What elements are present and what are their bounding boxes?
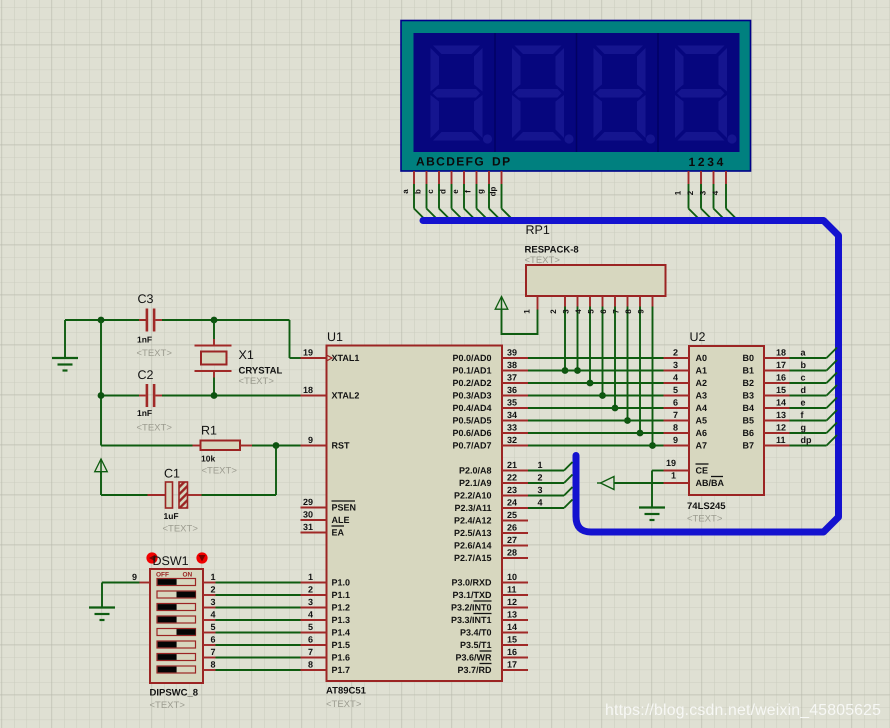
- wire P2.3 to address bus: [528, 498, 573, 509]
- U2 pin 14 B4: [742, 398, 789, 414]
- U1 pin 17 P3.7/RD: [457, 660, 528, 676]
- svg-text:19: 19: [303, 348, 313, 358]
- svg-text:b: b: [801, 360, 807, 370]
- svg-text:4: 4: [673, 373, 678, 383]
- svg-text:<TEXT>: <TEXT>: [239, 376, 275, 387]
- svg-text:P0.1/AD1: P0.1/AD1: [452, 366, 491, 376]
- svg-text:26: 26: [507, 523, 517, 533]
- svg-text:P0.7/AD7: P0.7/AD7: [452, 441, 491, 451]
- U2 pin 1 AB/BA: [664, 471, 725, 489]
- svg-text:3: 3: [699, 190, 708, 195]
- svg-text:B3: B3: [742, 391, 754, 401]
- junction RP1 pin 7 to P0 bus row: [624, 417, 631, 424]
- svg-text:P3.5/T1: P3.5/T1: [460, 640, 492, 650]
- svg-text:B2: B2: [742, 378, 754, 388]
- svg-text:39: 39: [507, 348, 517, 358]
- svg-text:4: 4: [308, 610, 313, 620]
- svg-text:P3.2/INT0: P3.2/INT0: [451, 603, 492, 613]
- svg-text:16: 16: [776, 373, 786, 383]
- svg-text:A4: A4: [696, 403, 708, 413]
- U2 pin 3 A1: [664, 360, 708, 376]
- power symbol VCC (reset): [95, 459, 108, 474]
- capacitor C2: [139, 384, 162, 407]
- svg-text:A0: A0: [696, 353, 708, 363]
- svg-text:P0.6/AD6: P0.6/AD6: [452, 428, 491, 438]
- svg-text:9: 9: [673, 435, 678, 445]
- U1 pin 31 EA: [301, 522, 345, 538]
- display pin d: [439, 171, 463, 220]
- wire VCC to C1: [101, 472, 148, 495]
- svg-text:<TEXT>: <TEXT>: [150, 700, 186, 711]
- wire P0.5 to U2 A5: [528, 420, 664, 422]
- wire P2.1 to address bus: [528, 473, 573, 484]
- svg-text:15: 15: [507, 635, 517, 645]
- svg-text:U1: U1: [327, 330, 343, 344]
- wire B1 to data bus / node b: [790, 360, 838, 371]
- svg-text:OFF: OFF: [156, 572, 169, 579]
- svg-text:2: 2: [308, 585, 313, 595]
- svg-text:g: g: [476, 189, 485, 194]
- DSW1 pin 3 / wire to P1.2: [203, 597, 301, 608]
- svg-text:<TEXT>: <TEXT>: [163, 524, 199, 535]
- wire B5 to data bus / node f: [790, 410, 838, 421]
- U2 pin 12 B6: [742, 423, 789, 439]
- svg-text:10k: 10k: [201, 454, 215, 464]
- U2 pin 7 A5: [664, 410, 708, 426]
- svg-text:P3.4/T0: P3.4/T0: [460, 628, 492, 638]
- svg-text:24: 24: [507, 498, 517, 508]
- svg-text:28: 28: [507, 548, 517, 558]
- U1 pin 21 P2.0/A8: [459, 460, 528, 476]
- svg-text:P2.1/A9: P2.1/A9: [459, 478, 492, 488]
- svg-text:B6: B6: [742, 428, 754, 438]
- U2 pin 16 B2: [742, 373, 789, 389]
- svg-text:3: 3: [308, 597, 313, 607]
- U1 pin 24 P2.3/A11: [454, 498, 528, 514]
- svg-text:3: 3: [211, 597, 216, 607]
- svg-text:11: 11: [776, 435, 786, 445]
- svg-text:P0.3/AD3: P0.3/AD3: [452, 391, 491, 401]
- wire C2 to XTAL2: [101, 395, 301, 397]
- crystal X1: [195, 320, 232, 396]
- wire B6 to data bus / node g: [790, 423, 838, 434]
- wire R1 to RST: [252, 445, 301, 447]
- U1 pin 32 P0.7/AD7: [452, 435, 528, 451]
- RP1 pin 8: [624, 296, 640, 433]
- svg-text:10: 10: [507, 572, 517, 582]
- display pin g: [476, 171, 500, 220]
- wire B4 to data bus / node e: [790, 398, 838, 409]
- svg-text:P2.7/A15: P2.7/A15: [454, 553, 492, 563]
- svg-text:5: 5: [673, 385, 678, 395]
- svg-text:P2.2/A10: P2.2/A10: [454, 491, 492, 501]
- svg-text:7: 7: [673, 410, 678, 420]
- U1 pin 3 P1.2: [301, 597, 351, 613]
- svg-text:P2.4/A12: P2.4/A12: [454, 516, 492, 526]
- svg-text:B7: B7: [742, 441, 754, 451]
- svg-text:d: d: [801, 385, 807, 395]
- svg-text:8: 8: [624, 309, 633, 314]
- svg-text:e: e: [801, 398, 806, 408]
- display pin b: [414, 171, 438, 220]
- svg-text:2: 2: [549, 309, 558, 314]
- svg-text:4: 4: [211, 610, 216, 620]
- U1 pin 15 P3.5/T1: [460, 635, 528, 651]
- svg-text:P3.1/TXD: P3.1/TXD: [452, 590, 492, 600]
- wire P0.4 to U2 A4: [528, 407, 664, 409]
- svg-text:B0: B0: [742, 353, 754, 363]
- U2 pin 15 B3: [742, 385, 789, 401]
- DSW1 pin 2 / wire to P1.1: [203, 585, 301, 596]
- DSW1 switch element 1: [157, 579, 196, 586]
- svg-text:dp: dp: [489, 187, 498, 197]
- svg-text:AB/BA: AB/BA: [696, 478, 725, 488]
- svg-text:d: d: [439, 189, 448, 194]
- svg-text:29: 29: [303, 497, 313, 507]
- U1 pin 4 P1.3: [301, 610, 351, 626]
- junction RP1 pin 3 to P0 bus row: [574, 367, 581, 374]
- wire P2.0 to address bus: [528, 460, 573, 471]
- DSW1 pin 7 / wire to P1.6: [203, 647, 301, 658]
- svg-text:7: 7: [211, 647, 216, 657]
- svg-text:X1: X1: [239, 348, 254, 362]
- junction RP1 pin 4 to P0 bus row: [587, 380, 594, 387]
- svg-text:9: 9: [637, 309, 646, 314]
- wire DSW1 common to ground: [102, 583, 140, 608]
- svg-text:8: 8: [308, 660, 313, 670]
- svg-text:27: 27: [507, 535, 517, 545]
- U1 pin 12 P3.2/INT0: [451, 597, 528, 613]
- svg-text:A1: A1: [696, 366, 708, 376]
- svg-text:ON: ON: [183, 572, 193, 579]
- RP1 pin 2: [549, 296, 565, 371]
- junction RP1 pin 2 to P0 bus row: [562, 367, 569, 374]
- svg-text:C3: C3: [138, 292, 154, 306]
- svg-text:PSEN: PSEN: [332, 503, 357, 513]
- display pin 3: [699, 171, 725, 220]
- display pin e: [451, 171, 475, 220]
- svg-text:33: 33: [507, 423, 517, 433]
- svg-text:21: 21: [507, 460, 517, 470]
- svg-text:XTAL2: XTAL2: [332, 391, 360, 401]
- microcontroller U1 body: [327, 346, 503, 682]
- svg-text:<TEXT>: <TEXT>: [326, 699, 362, 710]
- display pin dp: [489, 171, 513, 220]
- svg-text:2: 2: [211, 585, 216, 595]
- U2 pin 9 A7: [664, 435, 708, 451]
- RP1 pin 4: [574, 296, 590, 383]
- svg-text:23: 23: [507, 485, 517, 495]
- svg-text:b: b: [414, 189, 423, 194]
- RP1 pin 5: [587, 296, 603, 396]
- svg-text:8: 8: [211, 660, 216, 670]
- U1 pin 22 P2.1/A9: [459, 473, 528, 489]
- watermark: [605, 702, 881, 720]
- U2 pin 13 B5: [742, 410, 789, 426]
- svg-text:P1.3: P1.3: [332, 615, 351, 625]
- svg-text:11: 11: [507, 585, 517, 595]
- U1 pin 37 P0.2/AD2: [452, 373, 528, 389]
- bus wire (display to U2/P2): [423, 221, 839, 533]
- U1 pin 16 P3.6/WR: [455, 647, 528, 663]
- DSW1 switch element 4: [157, 616, 196, 623]
- svg-text:15: 15: [776, 385, 786, 395]
- U2 pin 4 A2: [664, 373, 708, 389]
- U1 pin 11 P3.1/TXD: [452, 585, 528, 601]
- display pin f: [464, 171, 488, 220]
- display digit 2: [512, 46, 574, 144]
- svg-text:2: 2: [538, 473, 543, 483]
- wire P2.2 to address bus: [528, 485, 573, 496]
- svg-text:13: 13: [776, 410, 786, 420]
- svg-text:1: 1: [211, 572, 216, 582]
- svg-text:19: 19: [666, 458, 676, 468]
- svg-text:1: 1: [674, 190, 683, 195]
- RP1 pin 1 (common): [523, 296, 538, 314]
- 4-digit 7-segment display: [401, 21, 751, 172]
- svg-text:U2: U2: [690, 330, 706, 344]
- svg-text:1: 1: [671, 471, 676, 481]
- U1 pin 19 XTAL1: [301, 348, 360, 364]
- svg-text:16: 16: [507, 647, 517, 657]
- svg-text:P3.0/RXD: P3.0/RXD: [451, 578, 492, 588]
- svg-text:32: 32: [507, 435, 517, 445]
- svg-text:1: 1: [538, 460, 543, 470]
- wire P0.7 to U2 A7: [528, 445, 664, 447]
- svg-text:P3.6/WR: P3.6/WR: [455, 653, 492, 663]
- svg-text:P3.7/RD: P3.7/RD: [457, 665, 492, 675]
- U1 pin 33 P0.6/AD6: [452, 423, 528, 439]
- svg-text:6: 6: [673, 398, 678, 408]
- U1 pin 28 P2.7/A15: [454, 548, 528, 564]
- U2 pin 19 CE: [664, 458, 709, 476]
- svg-text:B5: B5: [742, 416, 754, 426]
- svg-text:A2: A2: [696, 378, 708, 388]
- svg-text:1nF: 1nF: [137, 408, 152, 418]
- svg-text:<TEXT>: <TEXT>: [137, 348, 173, 359]
- U2 pin 17 B1: [742, 360, 789, 376]
- svg-text:34: 34: [507, 410, 517, 420]
- U1 pin 9 RST: [301, 435, 351, 451]
- svg-text:P1.0: P1.0: [332, 578, 351, 588]
- wire RST junction down to C1: [202, 446, 277, 496]
- svg-text:P2.0/A8: P2.0/A8: [459, 466, 492, 476]
- resistor pack RP1 body: [526, 265, 666, 296]
- svg-text:P0.0/AD0: P0.0/AD0: [452, 353, 491, 363]
- svg-text:P2.6/A14: P2.6/A14: [454, 541, 492, 551]
- U2 pin 18 B0: [742, 348, 789, 364]
- svg-text:12: 12: [776, 423, 786, 433]
- svg-text:DIPSWC_8: DIPSWC_8: [150, 688, 199, 699]
- U1 pin 2 P1.1: [301, 585, 351, 601]
- display pin c: [426, 171, 450, 220]
- svg-text:f: f: [464, 190, 473, 193]
- svg-text:4: 4: [538, 498, 543, 508]
- DSW1 switch element 5: [157, 629, 196, 636]
- U1 pin 13 P3.3/INT1: [451, 610, 528, 626]
- svg-text:P1.5: P1.5: [332, 640, 351, 650]
- svg-text:14: 14: [507, 622, 517, 632]
- ground (crystal caps): [52, 358, 78, 371]
- svg-text:1234: 1234: [689, 155, 727, 169]
- U1 pin 34 P0.5/AD5: [452, 410, 528, 426]
- svg-text:P0.2/AD2: P0.2/AD2: [452, 378, 491, 388]
- svg-text:3: 3: [673, 360, 678, 370]
- U1 pin 8 P1.7: [301, 660, 351, 676]
- U1 pin 6 P1.5: [301, 635, 351, 651]
- display digit 4: [675, 46, 737, 144]
- svg-text:B1: B1: [742, 366, 754, 376]
- svg-text:A6: A6: [696, 428, 708, 438]
- svg-text:14: 14: [776, 398, 786, 408]
- switch DSW1 actuator buttons: [146, 552, 207, 563]
- svg-text:37: 37: [507, 373, 517, 383]
- svg-text:9: 9: [132, 572, 137, 582]
- display digit 1: [431, 46, 493, 144]
- U1 pin 29 PSEN: [301, 497, 357, 513]
- svg-text:B4: B4: [742, 403, 754, 413]
- ground (U2 enable): [639, 508, 665, 521]
- svg-text:P1.7: P1.7: [332, 665, 351, 675]
- svg-text:1: 1: [308, 572, 313, 582]
- svg-text:18: 18: [776, 348, 786, 358]
- svg-text:12: 12: [507, 597, 517, 607]
- svg-text:6: 6: [308, 635, 313, 645]
- svg-text:EA: EA: [332, 528, 345, 538]
- svg-text:4: 4: [574, 309, 583, 314]
- svg-text:13: 13: [507, 610, 517, 620]
- U1 pin 38 P0.1/AD1: [452, 360, 528, 376]
- svg-text:A5: A5: [696, 416, 708, 426]
- switch DSW1 body: [150, 569, 203, 683]
- junction RP1 pin 5 to P0 bus row: [599, 392, 606, 399]
- U2 pin 11 B7: [742, 435, 789, 451]
- junction C2/ground rail: [98, 392, 105, 399]
- display pin 2: [686, 171, 712, 220]
- wire P0.1 to U2 A1: [528, 370, 664, 372]
- svg-text:2: 2: [673, 348, 678, 358]
- junction RST/C1: [273, 442, 280, 449]
- svg-text:38: 38: [507, 360, 517, 370]
- U1 pin 14 P3.4/T0: [460, 622, 528, 638]
- svg-text:R1: R1: [201, 424, 217, 438]
- svg-text:a: a: [401, 189, 410, 194]
- svg-text:P3.3/INT1: P3.3/INT1: [451, 615, 492, 625]
- U1 pin 26 P2.5/A13: [454, 523, 528, 539]
- svg-text:7: 7: [612, 309, 621, 314]
- RP1 pin 3: [562, 296, 578, 371]
- wire B7 to data bus / node dp: [790, 435, 838, 446]
- wire U2 AB/BA with direction arrow: [597, 477, 664, 490]
- svg-text:17: 17: [507, 660, 517, 670]
- capacitor C3: [139, 309, 162, 332]
- wire P0.3 to U2 A3: [528, 395, 664, 397]
- svg-text:35: 35: [507, 398, 517, 408]
- svg-text:1nF: 1nF: [137, 335, 152, 345]
- DSW1 pin 4 / wire to P1.3: [203, 610, 301, 621]
- RP1 pin 6: [599, 296, 615, 408]
- svg-text:8: 8: [673, 423, 678, 433]
- svg-text:5: 5: [211, 622, 216, 632]
- svg-text:3: 3: [538, 485, 543, 495]
- U1 pin 23 P2.2/A10: [454, 485, 528, 501]
- display digit separators: [495, 33, 658, 152]
- svg-text:CE: CE: [696, 466, 709, 476]
- svg-text:AT89C51: AT89C51: [326, 686, 367, 697]
- svg-text:18: 18: [303, 385, 313, 395]
- svg-text:P1.6: P1.6: [332, 653, 351, 663]
- svg-text:3: 3: [562, 309, 571, 314]
- wire ground rail down: [100, 320, 102, 446]
- svg-text:P1.1: P1.1: [332, 590, 351, 600]
- wire C3 to XTAL1: [162, 320, 301, 358]
- svg-text:5: 5: [587, 309, 596, 314]
- svg-text:74LS245: 74LS245: [687, 501, 726, 512]
- U1 pin 18 XTAL2: [301, 385, 360, 401]
- U1 pin 7 P1.6: [301, 647, 351, 663]
- svg-text:P1.2: P1.2: [332, 603, 351, 613]
- svg-text:4: 4: [711, 190, 720, 195]
- svg-text:6: 6: [211, 635, 216, 645]
- U1 pin 10 P3.0/RXD: [451, 572, 528, 588]
- U1 pin 1 P1.0: [301, 572, 351, 588]
- svg-text:g: g: [801, 423, 807, 433]
- wire B0 to data bus / node a: [790, 348, 838, 359]
- svg-text:7: 7: [308, 647, 313, 657]
- svg-text:c: c: [801, 373, 806, 383]
- svg-text:30: 30: [303, 510, 313, 520]
- U1 pin 27 P2.6/A14: [454, 535, 528, 551]
- U1 pin 35 P0.4/AD4: [452, 398, 528, 414]
- buffer U2 74LS245 body: [689, 346, 764, 495]
- wire U2 CE to ground: [652, 471, 664, 508]
- svg-text:P1.4: P1.4: [332, 628, 351, 638]
- svg-text:ALE: ALE: [332, 515, 350, 525]
- svg-text:RST: RST: [332, 441, 351, 451]
- junction RP1 pin 8 to P0 bus row: [637, 430, 644, 437]
- svg-text:25: 25: [507, 510, 517, 520]
- svg-text:P0.5/AD5: P0.5/AD5: [452, 416, 491, 426]
- svg-text:e: e: [451, 189, 460, 194]
- wire P0.2 to U2 A2: [528, 382, 664, 384]
- svg-text:ABCDEFG: ABCDEFG: [416, 155, 485, 169]
- capacitor C1 (polarized): [148, 482, 202, 508]
- U2 pin 6 A4: [664, 398, 708, 414]
- display pin 1: [674, 171, 700, 220]
- DSW1 switch element 7: [157, 654, 196, 661]
- svg-text:1uF: 1uF: [164, 511, 179, 521]
- DSW1 pin 1 / wire to P1.0: [203, 572, 301, 583]
- U1 pin 36 P0.3/AD3: [452, 385, 528, 401]
- ground (DSW1): [89, 608, 115, 621]
- svg-text:A3: A3: [696, 391, 708, 401]
- display digit 3: [594, 46, 656, 144]
- U1 pin 30 ALE: [301, 510, 350, 526]
- svg-text:31: 31: [303, 522, 313, 532]
- U1 pin 5 P1.4: [301, 622, 351, 638]
- svg-text:6: 6: [599, 309, 608, 314]
- wire rail to R1: [101, 445, 193, 447]
- svg-text:36: 36: [507, 385, 517, 395]
- svg-text:2: 2: [686, 190, 695, 195]
- wire B3 to data bus / node d: [790, 385, 838, 396]
- wire P0.6 to U2 A6: [528, 432, 664, 434]
- display pin 4: [711, 171, 737, 220]
- svg-text:A7: A7: [696, 441, 708, 451]
- U2 pin 2 A0: [664, 348, 708, 364]
- DSW1 pin 5 / wire to P1.4: [203, 622, 301, 633]
- wire P0.0 to U2 A0: [528, 357, 664, 359]
